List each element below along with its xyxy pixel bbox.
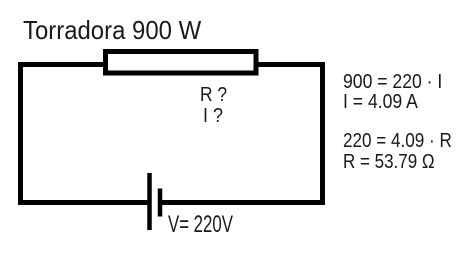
battery V1 negative plate (short) — [158, 189, 163, 217]
wire: top side, left segment to resistor — [18, 62, 106, 67]
resistor R (unknown value) — [106, 52, 257, 74]
wire: bottom side, right segment to battery negative plate — [160, 200, 325, 205]
calculation text: 220 = 4.09 * R — [343, 131, 452, 151]
wire: bottom side, left segment from battery positive plate — [18, 200, 150, 205]
title label: Torradora 900 W — [23, 17, 201, 43]
calculation text: R = 53.79 ohm — [343, 152, 435, 172]
label: R ? (unknown resistance) — [200, 85, 227, 105]
calculation text: I = 4.09 A — [343, 92, 418, 112]
wire: left vertical side — [18, 62, 23, 205]
label: I ? (unknown current) — [203, 106, 223, 126]
wire: right vertical side — [320, 62, 325, 205]
wire: top side, resistor to top-right corner — [256, 62, 325, 67]
battery V1 positive plate (long) — [147, 173, 152, 230]
value label: V= 220V (battery voltage) — [168, 213, 233, 237]
calculation text: 900 = 220 * I — [343, 72, 442, 92]
